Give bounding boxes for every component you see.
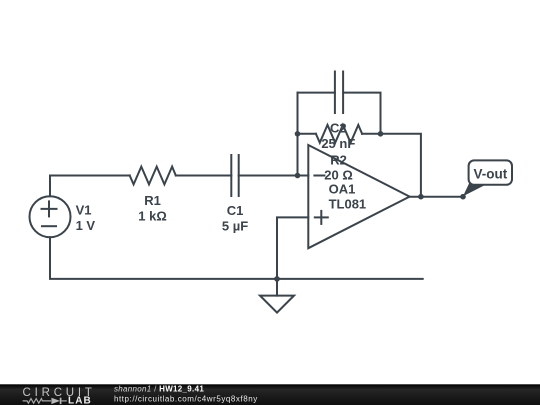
svg-text:1 V: 1 V [76,218,96,233]
svg-text:http://circuitlab.com/c4wr5yq8: http://circuitlab.com/c4wr5yq8xf8ny [114,394,258,403]
wire V1 top stub [49,176,51,197]
node R2 left junction [295,131,301,137]
resistor R2 [316,125,362,143]
svg-text:R1: R1 [144,193,161,208]
svg-text:1 kΩ: 1 kΩ [138,209,167,224]
label R1 value [138,193,167,224]
wire R2 right to output vertical [362,134,421,197]
footer bar [0,384,540,405]
node output junction [418,194,424,200]
capacitor C1 [231,155,238,196]
label R2 value [324,152,353,182]
capacitor C2 [335,72,343,114]
svg-text:OA1: OA1 [329,181,356,196]
svg-text:25 nF: 25 nF [321,136,355,151]
flag V-out [463,160,512,196]
wire C2 left [298,92,335,94]
resistor R1 [130,167,176,185]
svg-text:C1: C1 [227,203,244,218]
svg-text:V-out: V-out [474,167,508,182]
wire R1 to C1 [176,175,232,177]
op-amp OA1 [308,145,409,248]
wire C1 to op-amp inverting input [239,175,309,177]
node V-out junction [460,194,466,200]
ground [260,279,294,313]
label C1 value [222,203,248,234]
wire input top [50,175,130,177]
wire feedback left vertical [297,93,299,176]
node R2 right junction [378,131,384,137]
svg-text:V1: V1 [76,203,92,218]
label V1 value [76,203,96,233]
node ground junction [274,276,280,282]
wire output [410,196,463,198]
svg-text:5 µF: 5 µF [222,219,248,234]
svg-text:R2: R2 [330,152,347,167]
svg-text:C2: C2 [330,120,347,135]
svg-text:LAB: LAB [68,395,92,405]
node A inverting input junction [295,173,301,179]
svg-text:TL081: TL081 [329,197,367,212]
label OA1 value [329,181,367,211]
wire non-inverting input [277,217,308,279]
wire R2 left lead [298,133,316,135]
label C2 value [321,120,355,151]
wire bottom rail [50,237,423,279]
svg-text:shannon1 / HW12_9.41: shannon1 / HW12_9.41 [114,385,204,394]
voltage source V1 [30,196,71,237]
wire C2 right [343,93,380,134]
CircuitLab logo [23,387,96,405]
